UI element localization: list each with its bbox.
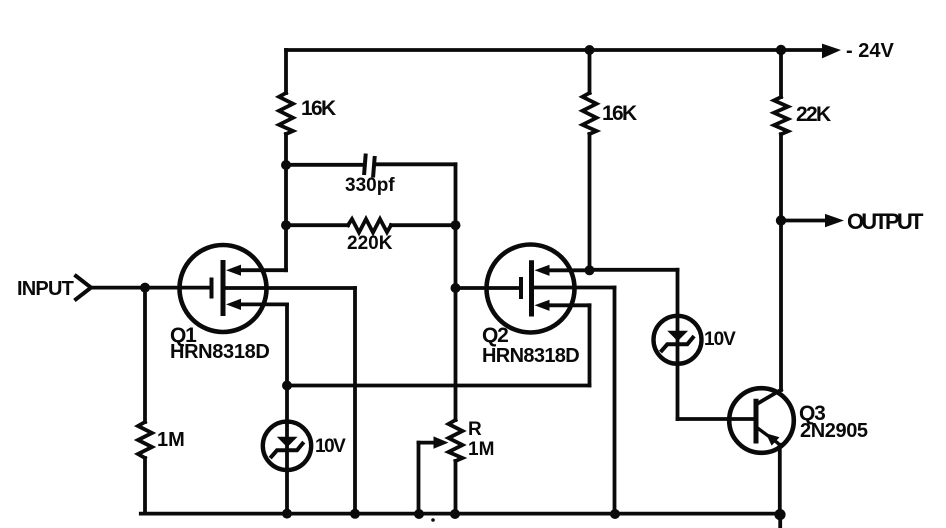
Q3 emitter arrowhead — [766, 433, 780, 445]
stray dot — [431, 518, 435, 522]
label 22K — [796, 104, 829, 125]
zener diode D2 circle — [654, 316, 702, 364]
node rail zener1 — [282, 509, 292, 519]
node OUTPUT — [776, 215, 786, 225]
transistor Q3 circle — [729, 388, 794, 453]
zener D2 bar — [662, 338, 693, 351]
-24V arrowhead — [822, 44, 841, 59]
wire 330pf right lead — [377, 162, 456, 166]
node Q2 gate — [451, 283, 461, 293]
node rail pot wiper — [414, 509, 424, 519]
wire Q3 emitter vertical — [778, 445, 782, 515]
node top rail / 16K right — [585, 45, 595, 55]
Q1 drain arrowhead — [226, 265, 241, 276]
zener D2 triangle — [667, 331, 688, 341]
wire Q1 source vertical — [285, 304, 289, 385]
node 220K left — [281, 220, 291, 230]
wire Q2 gate lead — [456, 286, 520, 290]
wire 1M vertical top — [143, 288, 147, 422]
wire -24V arrow stem — [781, 48, 823, 52]
label R pot — [468, 420, 482, 439]
wire 220K right lead — [391, 223, 456, 227]
wire Q1 bulk lead — [225, 286, 355, 290]
wire 16K-1 top lead — [284, 50, 288, 93]
wire input lead — [91, 286, 210, 290]
wire source bus horizontal — [287, 384, 590, 388]
wire 16K-2 bottom lead — [588, 134, 592, 270]
wire x=286 vertical (16K bottom to Q1 drain) — [284, 134, 288, 270]
resistor 16K (right) — [583, 93, 597, 134]
wire 1M bottom lead — [143, 458, 147, 514]
label 16K left — [301, 98, 334, 119]
label 10V zener2 — [704, 330, 735, 349]
wire Q2 source lead — [550, 303, 590, 307]
wire zener2 to Q3 base — [678, 417, 755, 421]
Q2 source arrowhead — [535, 300, 550, 311]
label HRN8318D Q1 — [170, 342, 269, 362]
wire right feedback vertical x=455.5 — [454, 164, 458, 420]
node Q2 drain — [585, 265, 595, 275]
Q2 bulk lead — [533, 286, 615, 290]
node source junction — [282, 381, 292, 391]
wire Q2 source vertical — [588, 305, 592, 385]
zener D1 bar — [272, 444, 303, 457]
wire 330pf left lead — [286, 163, 362, 167]
wire pot wiper — [419, 441, 436, 445]
wire rail end stub — [778, 515, 782, 528]
node rail Q1 bulk — [350, 509, 360, 519]
wire pot wiper vertical — [417, 443, 421, 514]
node input / 1M — [140, 283, 150, 293]
label -24V — [846, 41, 894, 61]
node 330pf left — [281, 160, 291, 170]
INPUT chevron — [76, 276, 91, 299]
wire OUTPUT arrow stem — [781, 219, 826, 223]
label 16K right — [602, 103, 635, 124]
transistor Q2 circle — [487, 245, 575, 333]
wire drain to zener2 — [590, 268, 678, 272]
Q2 channel bar — [529, 263, 534, 314]
label 2N2905 — [800, 421, 868, 441]
Q2 gate bar — [519, 279, 523, 297]
label 220K — [347, 234, 392, 253]
wire zener1 vertical — [285, 386, 289, 514]
label Q1 — [170, 325, 196, 346]
resistor 1M — [138, 422, 152, 458]
label 1M resistor — [157, 430, 185, 450]
label OUTPUT — [847, 211, 921, 233]
node rail pot bottom — [450, 509, 460, 519]
label 10V zener1 — [315, 437, 344, 456]
Q1 gate bar — [210, 280, 214, 297]
pot wiper arrowhead — [434, 436, 449, 448]
label INPUT — [17, 279, 73, 299]
Q3 emitter diagonal — [757, 428, 780, 446]
resistor 16K (left) — [279, 93, 293, 134]
node rail Q2 bulk — [610, 509, 620, 519]
wire 22K vertical top — [779, 50, 783, 97]
node top rail / 22K — [776, 45, 786, 55]
Q3 collector diagonal — [756, 390, 781, 405]
Q1 source arrowhead — [226, 299, 241, 310]
capacitor 330pf plates — [364, 156, 365, 174]
wire Q2 drain lead — [550, 268, 590, 272]
wire 16K-2 vertical — [588, 50, 592, 93]
Q1 channel bar — [221, 263, 226, 314]
wire zener2 top vertical — [676, 270, 680, 419]
wire 220K left lead — [286, 223, 348, 227]
wire pot bottom lead — [454, 461, 458, 514]
label Q3 — [799, 403, 825, 424]
zener diode D1 circle — [263, 422, 311, 470]
label 330pf — [345, 176, 395, 195]
wire Q1 source lead — [241, 302, 287, 306]
node rail right end — [774, 509, 785, 520]
Q3 base bar — [754, 401, 759, 441]
label 1M pot — [468, 440, 494, 459]
wire bottom rail — [141, 512, 780, 516]
label HRN8318D Q2 — [482, 346, 579, 366]
wire Q2 bulk vertical — [613, 288, 617, 514]
potentiometer R 1M — [449, 420, 463, 461]
resistor 220K — [348, 219, 391, 233]
zener D1 triangle — [277, 437, 298, 447]
OUTPUT arrowhead — [825, 214, 844, 227]
node 220K right — [451, 220, 461, 230]
wire 22K bottom to collector — [779, 134, 783, 390]
resistor 22K — [774, 97, 788, 134]
wire Q1 bulk vertical x=355 — [353, 288, 357, 514]
Q2 drain arrowhead — [535, 265, 550, 276]
transistor Q1 circle — [180, 245, 267, 332]
wire Q1 drain lead — [241, 268, 286, 272]
wire top rail -24V — [286, 48, 781, 52]
label Q2 — [482, 325, 508, 346]
